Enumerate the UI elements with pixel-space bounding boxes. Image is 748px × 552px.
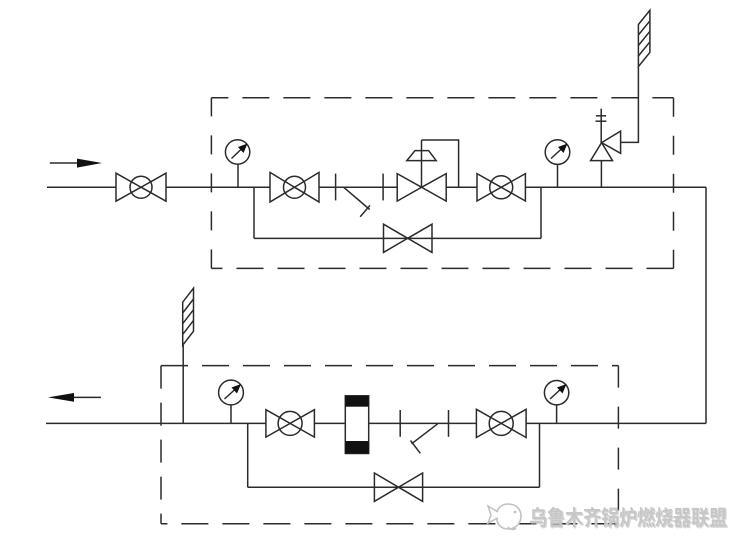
vent stack 1 (hatched) bbox=[638, 10, 650, 66]
wire: inlet pipe to valve V1 bbox=[47, 186, 116, 188]
wire: valve V3 to right corner bbox=[525, 186, 706, 188]
sensing line of regulator R1 bbox=[422, 140, 459, 187]
wire: outlet pipe bbox=[46, 422, 266, 424]
vent stack 2 riser bbox=[182, 345, 184, 423]
bypass valve BV1 bbox=[384, 224, 433, 252]
drain symbol D2 bbox=[411, 424, 438, 454]
wire: right connector pipe bbox=[705, 187, 707, 423]
pressure gauge PG4 bbox=[544, 381, 568, 424]
regulator R1 bbox=[397, 140, 446, 201]
watermark logo bbox=[488, 504, 521, 529]
bypass valve BV2 bbox=[374, 473, 422, 501]
pressure gauge PG2 bbox=[545, 140, 570, 187]
wire: valve V5 to right corner bbox=[526, 422, 706, 424]
vent stack 2 (hatched) bbox=[183, 288, 194, 345]
safety relief valve PSV1 bbox=[591, 131, 621, 187]
valve V2 bbox=[270, 172, 319, 202]
drain symbol D1 bbox=[344, 188, 370, 217]
node: bypass 2 tee (right) bbox=[539, 423, 541, 487]
wire: PSV1 outlet to vent riser 1 bbox=[621, 67, 639, 143]
flange tick F1 bbox=[335, 174, 337, 201]
station boundary box 1 (dashed) bbox=[211, 98, 673, 269]
node: bypass 2 tee (left) bbox=[247, 423, 249, 487]
station boundary box 2 (dashed) bbox=[161, 366, 618, 524]
bypass line 2 bbox=[248, 486, 540, 488]
outlet flow arrow bbox=[48, 393, 101, 402]
valve V1 bbox=[116, 173, 166, 201]
node: bypass 1 tee (left) bbox=[253, 187, 255, 238]
inlet flow arrow bbox=[50, 159, 102, 168]
wire: valve V1 to valve V2 bbox=[166, 186, 270, 188]
valve V3 bbox=[477, 174, 525, 201]
flange tick F4 bbox=[448, 410, 450, 437]
flange tick F2 bbox=[382, 174, 384, 201]
flange tick F3 bbox=[399, 410, 401, 437]
wire: regulator to valve V3 bbox=[446, 186, 477, 188]
wire: valve V4 to filter bbox=[314, 422, 345, 424]
wire: valve V2 to regulator bbox=[319, 186, 397, 188]
valve V4 bbox=[266, 410, 315, 437]
bypass line 1 bbox=[254, 237, 541, 239]
pressure gauge PG3 bbox=[219, 380, 244, 423]
filter FL1 bbox=[345, 396, 368, 454]
wire: filter to valve V5 bbox=[369, 422, 477, 424]
pressure gauge PG1 bbox=[225, 140, 249, 187]
node: bypass 1 tee (right) bbox=[540, 187, 542, 238]
valve V5 bbox=[476, 409, 526, 437]
spring symbol of PSV1 bbox=[596, 109, 607, 143]
watermark text bbox=[530, 507, 728, 529]
